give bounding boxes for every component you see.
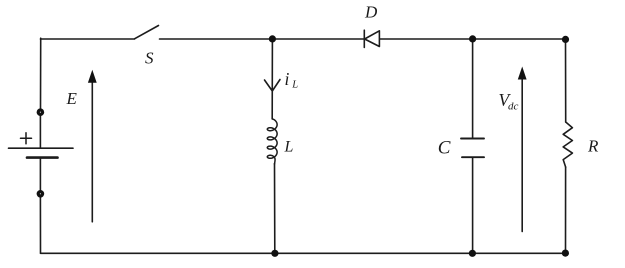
svg-text:L: L xyxy=(284,138,294,155)
node dot diode-capacitor junction xyxy=(469,35,476,42)
battery terminal circle bottom xyxy=(37,190,45,198)
node dot inductor-bottom junction xyxy=(271,250,278,257)
battery terminal circle top xyxy=(37,108,45,116)
resistor R zigzag xyxy=(563,122,572,167)
right rail lower wire xyxy=(565,167,567,253)
battery plate short xyxy=(27,156,58,159)
node dot top right corner xyxy=(562,36,569,43)
svg-text:dc: dc xyxy=(508,101,519,113)
bottom wire xyxy=(41,252,566,254)
left rail lower wire xyxy=(39,198,41,254)
capacitor branch upper wire xyxy=(472,39,474,138)
capacitor C bottom plate xyxy=(462,156,484,158)
capacitor C top plate xyxy=(461,138,484,140)
plus sign label xyxy=(21,133,32,144)
wire top left segment xyxy=(41,38,135,40)
right rail upper wire xyxy=(565,39,567,122)
wire top middle segment xyxy=(160,38,365,40)
current arrow i_L chevron xyxy=(265,80,281,92)
battery bottom wire xyxy=(39,159,41,191)
Vdc arrowhead xyxy=(518,67,527,80)
diode D triangle xyxy=(365,31,380,47)
svg-text:S: S xyxy=(145,49,154,68)
left rail upper wire xyxy=(40,38,42,109)
left rail wire to battery xyxy=(39,116,41,148)
diode D cathode bar xyxy=(363,30,365,47)
svg-text:C: C xyxy=(438,138,451,159)
E arrowhead xyxy=(88,70,97,83)
svg-text:i: i xyxy=(285,69,290,89)
middle branch lower wire xyxy=(274,164,276,254)
E arrow line xyxy=(91,81,93,222)
node dot capacitor-bottom junction xyxy=(469,250,476,257)
Vdc arrow line xyxy=(521,79,523,232)
inductor L coil xyxy=(267,119,277,164)
wire top right segment xyxy=(379,38,565,40)
svg-text:L: L xyxy=(291,79,298,90)
capacitor branch lower wire xyxy=(472,158,474,254)
svg-text:R: R xyxy=(587,136,599,155)
switch S blade xyxy=(135,26,159,39)
svg-text:D: D xyxy=(364,3,378,22)
battery plate long xyxy=(9,147,74,149)
node dot switch-inductor junction xyxy=(269,35,276,42)
svg-text:E: E xyxy=(66,89,78,108)
node dot bottom right corner xyxy=(562,250,569,257)
middle branch upper wire xyxy=(271,39,273,119)
